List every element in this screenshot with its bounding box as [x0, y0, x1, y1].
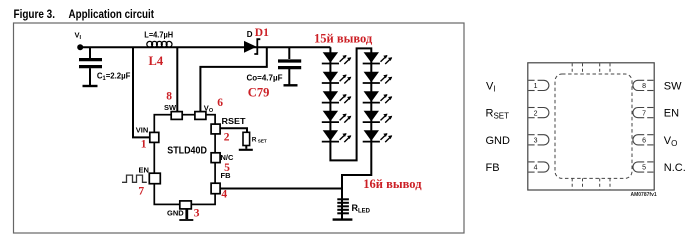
svg-text:FB: FB: [486, 162, 500, 174]
svg-text:GND: GND: [486, 135, 511, 147]
svg-text:RSET: RSET: [222, 117, 246, 126]
svg-text:8: 8: [166, 91, 172, 103]
svg-text:VIN: VIN: [136, 125, 149, 134]
svg-text:R: R: [252, 136, 257, 143]
svg-text:1: 1: [141, 139, 147, 151]
svg-text:4: 4: [534, 165, 538, 172]
svg-text:EN: EN: [139, 165, 149, 174]
svg-text:L=4.7µH: L=4.7µH: [144, 29, 173, 39]
svg-text:C1=2.2µF: C1=2.2µF: [97, 72, 130, 82]
svg-text:L4: L4: [149, 54, 164, 68]
svg-text:7: 7: [642, 110, 646, 117]
svg-text:SW: SW: [664, 80, 682, 92]
svg-text:STLD40D: STLD40D: [167, 144, 207, 156]
svg-text:N/C: N/C: [221, 153, 235, 162]
svg-text:6: 6: [642, 138, 646, 145]
svg-text:4: 4: [221, 188, 227, 200]
svg-text:1: 1: [534, 83, 538, 90]
svg-text:D: D: [247, 30, 253, 39]
svg-text:C79: C79: [248, 86, 270, 100]
svg-text:D1: D1: [255, 27, 269, 39]
svg-text:5: 5: [642, 165, 646, 172]
svg-text:Application circuit: Application circuit: [69, 9, 155, 21]
svg-text:EN: EN: [664, 108, 679, 120]
svg-text:8: 8: [642, 83, 646, 90]
svg-text:3: 3: [194, 208, 200, 220]
svg-text:7: 7: [138, 186, 144, 198]
svg-text:16й вывод: 16й вывод: [363, 177, 422, 191]
svg-text:GND: GND: [167, 209, 184, 218]
svg-text:3: 3: [534, 138, 538, 145]
svg-text:2: 2: [534, 110, 538, 117]
svg-text:SET: SET: [258, 139, 267, 144]
svg-text:6: 6: [217, 97, 223, 109]
svg-text:N.C.: N.C.: [664, 162, 686, 174]
svg-text:15й вывод: 15й вывод: [314, 31, 373, 45]
svg-text:5: 5: [224, 162, 230, 174]
svg-text:Figure 3.: Figure 3.: [14, 9, 56, 21]
svg-text:Co=4.7µF: Co=4.7µF: [247, 73, 283, 83]
svg-text:AM0787fv1: AM0787fv1: [631, 192, 657, 198]
svg-text:2: 2: [224, 131, 230, 143]
svg-text:SW: SW: [164, 103, 177, 112]
